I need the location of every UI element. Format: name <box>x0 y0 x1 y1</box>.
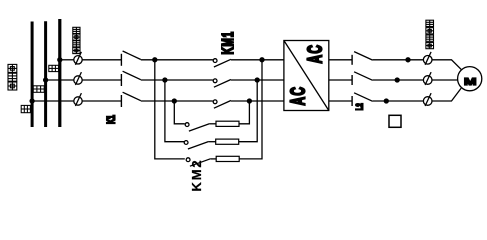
svg-text:M: M <box>464 76 477 88</box>
switch L2 pole3 blade <box>354 93 373 102</box>
node: branch junction phase3 to KM2 row A <box>172 99 176 103</box>
unfilled annotation square <box>389 115 401 127</box>
contactor KM2 pole C fixed contact circle <box>186 158 190 162</box>
contactor KM2 pole A blade <box>189 124 210 132</box>
node: rejoin junction phase1 / KM2 row C return <box>260 58 264 62</box>
switch K1 pole1 blade <box>123 51 141 60</box>
contactor KM2 pole B blade <box>188 142 209 150</box>
svg-text:K1: K1 <box>105 115 117 124</box>
node: rejoin junction phase3 / KM2 row A return <box>247 99 251 103</box>
wire terminal2 to K1 pole2 <box>82 79 121 81</box>
resistor R2 <box>216 139 239 144</box>
svg-text:AC: AC <box>303 44 326 64</box>
node: branch junction phase2 to KM2 row B <box>163 78 167 82</box>
contactor KM1 pole1 blade <box>214 59 231 67</box>
resistor R1 <box>216 121 239 126</box>
node: tap junction bar L1 / phase wire 3 <box>30 99 34 103</box>
wire K1 pole2 to KM1 pole2 <box>141 79 213 81</box>
switch K1 pole2 blade <box>123 71 141 80</box>
switch L2 pole1 contact tick <box>351 55 353 65</box>
svg-text:KM2: KM2 <box>189 159 204 192</box>
contactor KM2 pole C blade <box>190 159 211 167</box>
bus bar L1 (leftmost phase bar) <box>31 22 34 128</box>
wire K1 pole1 to KM1 pole1 <box>141 59 213 61</box>
wire terminal to motor phase3 <box>432 88 461 101</box>
wire resistor R1 return up to phase3 <box>239 101 249 124</box>
converter U1 box (AC/AC) <box>284 41 329 111</box>
wire K1 pole3 to KM1 pole3 <box>141 100 213 102</box>
switch L2 pole2 blade <box>354 72 373 81</box>
bus bar L2 (middle phase bar) <box>44 21 47 127</box>
svg-text:AC: AC <box>286 86 309 106</box>
wire phase2 bus to terminal <box>46 79 74 81</box>
wire branch phase3 down to KM2 row A <box>174 101 185 124</box>
svg-text:KM1: KM1 <box>219 31 237 55</box>
label 主回路 (main circuit) <box>8 64 17 90</box>
terminal X2:3 circle with slash <box>423 93 432 106</box>
wire branch phase1 down to KM2 row C <box>155 60 185 159</box>
wire KM1 pole3 to AC box <box>231 100 284 102</box>
wire terminal to motor phase2 <box>432 79 457 81</box>
label 接线端子 (terminals, right) <box>426 20 434 49</box>
wire KM1 pole1 to AC box <box>231 59 284 61</box>
node: junction on motor wire 2 <box>395 78 399 82</box>
switch K1 pole3 contact tick <box>120 95 122 107</box>
node: junction on motor wire 1 <box>406 58 410 62</box>
svg-text:L2: L2 <box>354 103 365 110</box>
wire terminal1 to K1 pole1 <box>82 59 121 61</box>
label 红 (red) <box>49 65 59 71</box>
wire terminal3 to K1 pole3 <box>82 100 121 102</box>
wire branch phase2 down to KM2 row B <box>165 80 185 142</box>
wire AC box out3 to L2 pole3 <box>329 100 352 102</box>
switch L2 pole2 contact tick <box>351 75 353 85</box>
switch K1 pole3 blade <box>123 92 141 101</box>
terminal X1:1 circle with slash <box>74 52 82 65</box>
switch K1 pole2 contact tick <box>120 74 122 86</box>
label 接线端子 (terminals, left) <box>73 27 80 53</box>
contactor KM1 pole2 blade <box>214 80 231 88</box>
wire L2 pole1 to terminal <box>373 59 424 61</box>
node: tap junction bar L2 / phase wire 2 <box>44 78 48 82</box>
contactor KM1 pole3 fixed contact circle <box>213 100 217 104</box>
wire AC box out2 to L2 pole2 <box>329 79 352 81</box>
terminal X2:1 circle with slash <box>423 52 432 65</box>
label 黄 (yellow) <box>21 105 30 112</box>
label 黑 (black) <box>33 86 44 93</box>
terminal X1:3 circle with slash <box>74 93 82 106</box>
wire L2 pole2 to terminal <box>373 79 424 81</box>
wire AC box out1 to L2 pole1 <box>329 59 352 61</box>
node: branch junction phase1 to KM2 row C <box>153 58 157 62</box>
wire phase1 bus to terminal <box>60 59 74 61</box>
wire L2 pole3 to terminal <box>373 100 424 102</box>
wire terminal to motor phase1 <box>432 60 461 70</box>
contactor KM1 pole1 fixed contact circle <box>213 59 217 63</box>
contactor KM2 pole A fixed contact circle <box>185 123 189 127</box>
node: junction on motor wire 3 <box>384 99 388 103</box>
switch L2 pole1 blade <box>354 52 373 61</box>
resistor R3 <box>216 156 239 161</box>
contactor KM1 pole3 blade <box>214 101 231 109</box>
switch L2 pole3 contact tick <box>351 96 353 106</box>
wire resistor R2 return up to phase2 <box>239 80 258 142</box>
wire KM1 pole2 to AC box <box>231 79 284 81</box>
node: rejoin junction phase2 / KM2 row B return <box>255 78 259 82</box>
contactor KM2 pole B fixed contact circle <box>184 141 188 145</box>
wire KM2 pole C to resistor R3 <box>211 158 217 160</box>
bus bar L3 (rightmost phase bar) <box>58 19 61 127</box>
wire KM2 pole A to resistor R1 <box>210 123 216 125</box>
terminal X2:2 circle with slash <box>423 72 432 85</box>
wire phase3 bus to terminal <box>32 100 74 102</box>
contactor KM1 pole2 fixed contact circle <box>213 79 217 83</box>
switch K1 pole1 contact tick <box>120 54 122 66</box>
converter U1 diagonal <box>284 41 329 111</box>
wire KM2 pole B to resistor R2 <box>209 141 216 143</box>
motor M circle <box>458 67 482 91</box>
node: tap junction bar L3 / phase wire 1 <box>58 58 62 62</box>
wire resistor R3 return up to phase1 <box>239 60 262 159</box>
terminal X1:2 circle with slash <box>74 72 82 85</box>
